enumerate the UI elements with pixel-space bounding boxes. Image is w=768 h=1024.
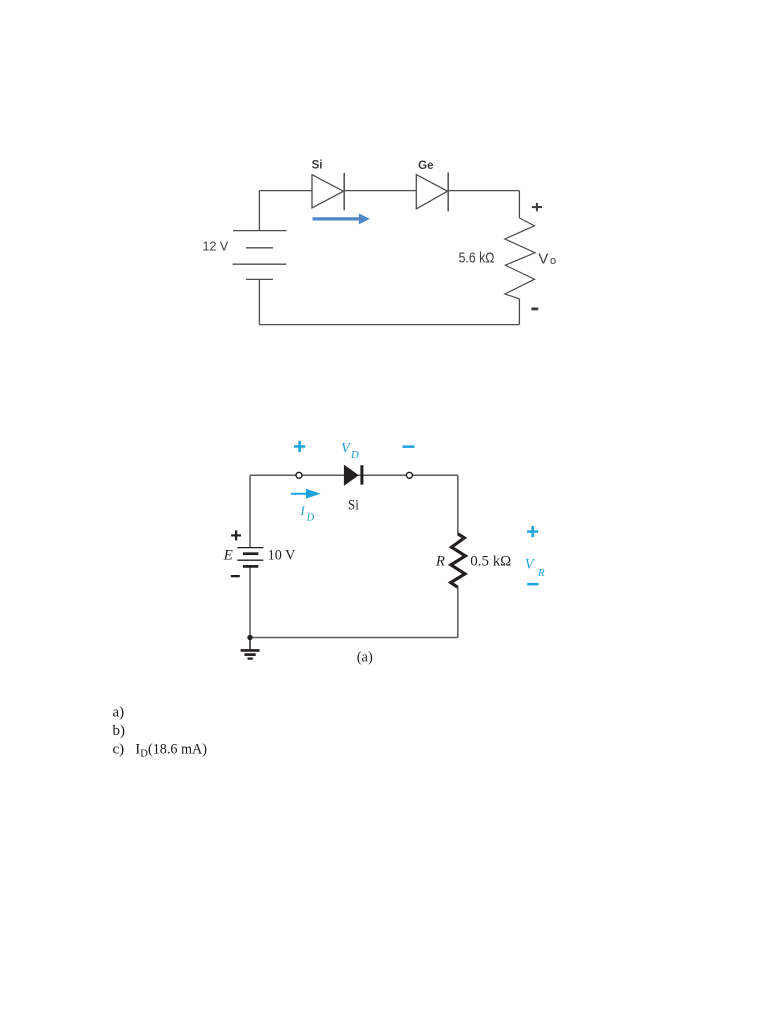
svg-text:I: I: [299, 503, 305, 518]
svg-text:D: D: [350, 449, 359, 461]
svg-text:0.5 kΩ: 0.5 kΩ: [470, 553, 511, 569]
battery 12 V: [233, 231, 287, 280]
minus sign VD (cyan): [403, 445, 415, 448]
svg-text:E: E: [223, 548, 233, 564]
wire top: [250, 474, 458, 476]
battery plus sign: [231, 530, 241, 540]
label VD (cyan): [341, 441, 359, 461]
label ID (cyan): [299, 503, 314, 524]
wire bottom: [250, 637, 458, 639]
plus sign VR (cyan): [527, 526, 538, 537]
battery E 10 V: [237, 548, 263, 567]
wire right vertical lower: [457, 587, 459, 637]
svg-text:o: o: [550, 255, 556, 267]
resistor 5.6 kOhm: [505, 218, 535, 299]
svg-text:Ge: Ge: [418, 160, 433, 172]
label VR (cyan): [525, 556, 545, 579]
minus sign (output): [531, 308, 538, 311]
wire top-left segment: [259, 190, 312, 192]
wire right vertical (below resistor): [518, 299, 520, 325]
current arrow (blue): [313, 213, 370, 224]
wire right vertical (above resistor): [518, 191, 520, 218]
wire right vertical upper: [457, 475, 459, 534]
svg-text:a): a): [113, 704, 125, 720]
diode D1 Si: [312, 173, 344, 210]
wire left vertical lower: [249, 566, 251, 637]
label Vo: [538, 250, 556, 267]
svg-text:b): b): [113, 723, 126, 739]
svg-text:(18.6 mA): (18.6 mA): [148, 742, 207, 758]
svg-text:V: V: [525, 556, 536, 572]
plus sign (output): [532, 203, 542, 211]
svg-text:c): c): [113, 742, 125, 758]
wire between diodes: [345, 190, 417, 192]
svg-text:R: R: [435, 553, 445, 569]
wire left vertical upper: [249, 475, 251, 547]
svg-text:12 V: 12 V: [203, 240, 229, 254]
svg-text:Si: Si: [312, 159, 323, 171]
svg-text:Si: Si: [348, 497, 359, 513]
svg-text:D: D: [306, 513, 315, 524]
svg-text:V: V: [538, 250, 548, 267]
terminal circle left: [296, 472, 302, 478]
svg-text:5.6 kΩ: 5.6 kΩ: [459, 250, 495, 266]
resistor R 0.5 kOhm: [451, 534, 466, 588]
junction dot: [247, 635, 252, 640]
minus sign VR (cyan): [527, 583, 538, 586]
svg-text:(a): (a): [357, 650, 373, 666]
wire left vertical (battery top): [258, 191, 260, 231]
plus sign VD (cyan): [294, 441, 305, 452]
current arrow ID (cyan): [291, 489, 321, 499]
wire left vertical (battery bottom): [258, 279, 260, 324]
battery minus sign: [231, 575, 240, 577]
diode D2 Ge: [416, 172, 448, 211]
ground: [241, 638, 260, 659]
diode D Si (solid): [344, 465, 364, 486]
wire bottom: [259, 324, 519, 326]
item c) ID (18.6 mA): [113, 742, 208, 760]
svg-text:R: R: [537, 567, 545, 579]
svg-text:10 V: 10 V: [268, 548, 296, 564]
wire top-right segment: [449, 190, 520, 192]
terminal circle right: [406, 472, 412, 478]
